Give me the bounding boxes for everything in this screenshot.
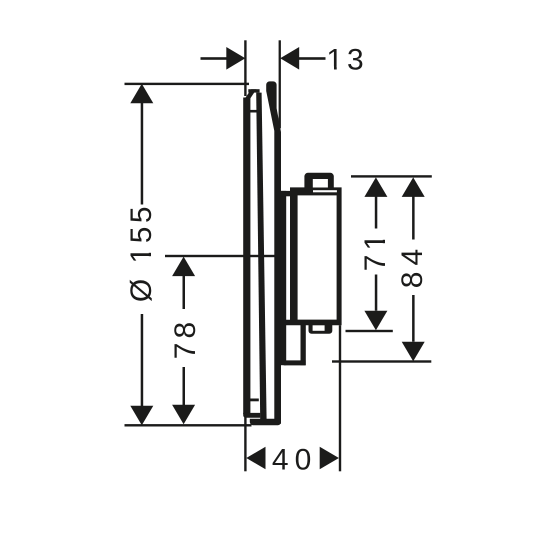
valve connector top edge [281, 191, 293, 196]
serif mask for digit 1 of label D155 [148, 247, 152, 253]
plate bottom cap joining bar [250, 419, 281, 425]
svg-text:71: 71 [359, 230, 392, 271]
valve body top stub [304, 173, 333, 190]
dimension D155 line lower segment [141, 314, 144, 406]
serif mask for digit 1 of label 13 [148, 66, 386, 262]
dimension 84 bottom arrowhead [402, 342, 425, 362]
dimension 78 bottom arrowhead [172, 405, 195, 425]
extension line top left (plate top) [125, 83, 250, 85]
dimension 78 line upper segment [183, 276, 186, 309]
valve body outline [286, 187, 342, 325]
dimension 40 left arrowhead [246, 447, 265, 470]
valve body top stub window [313, 179, 328, 188]
plate inner step tick upper [250, 110, 258, 113]
dimension 40 extension line right [339, 325, 341, 471]
foot bottom edge [282, 360, 306, 365]
dimension 13 left arrowhead [226, 47, 245, 70]
dimension D155 top arrowhead [130, 84, 153, 104]
plate front face bar [243, 95, 250, 414]
dimension 13 extension line left [244, 40, 246, 96]
valve connector column [281, 191, 286, 365]
plate mid bar [256, 93, 266, 420]
plate mid bar top edge [248, 89, 259, 92]
svg-text:Ø 155: Ø 155 [125, 203, 158, 302]
dimension 13 right arrowhead [280, 47, 299, 70]
foot right wall [301, 324, 306, 366]
extension line low right (foot bottom) [332, 360, 431, 362]
dimension 40 right arrowhead [320, 447, 339, 470]
dimension 84 line upper segment [412, 197, 415, 240]
extension line top right (body top) [351, 175, 432, 177]
valve body top edge inner sliver [313, 190, 337, 192]
svg-text:78: 78 [169, 318, 202, 359]
dimension 71 line upper segment [375, 197, 378, 229]
dimension D155 line upper segment [141, 103, 144, 205]
dimension D155 bottom arrowhead [130, 406, 153, 426]
extension line bottom left (plate bottom) [125, 424, 252, 426]
extension line mid right (body bottom) [346, 330, 393, 332]
svg-text:40: 40 [272, 443, 317, 476]
plate front top chamfer [244, 89, 257, 100]
serif mask for digit 1 of label 71 [382, 234, 386, 240]
dimension 71 top arrowhead [364, 177, 387, 197]
plate front bottom cap [243, 413, 260, 418]
dimension 13 left arrow tail [201, 57, 228, 60]
dimension 71 line lower segment [375, 275, 378, 311]
plate inner step tick lower [250, 399, 259, 402]
plate wall bar [266, 81, 281, 423]
dimension 84 line lower segment [412, 295, 415, 342]
dimension 84 top arrowhead [402, 177, 425, 197]
dimension 78 top arrowhead [172, 257, 195, 277]
dimension 71 bottom arrowhead [364, 311, 387, 331]
center line [165, 255, 282, 257]
svg-text:13: 13 [326, 43, 367, 76]
dimension 40 extension line left [244, 416, 246, 471]
valve body bottom stub [309, 321, 333, 334]
dimension 78 line lower segment [183, 367, 186, 405]
svg-text:84: 84 [396, 243, 429, 288]
valve body bottom stub window [313, 325, 325, 331]
dimension 13 extension line right [279, 40, 281, 128]
dimension 13 right arrow tail [299, 57, 326, 60]
